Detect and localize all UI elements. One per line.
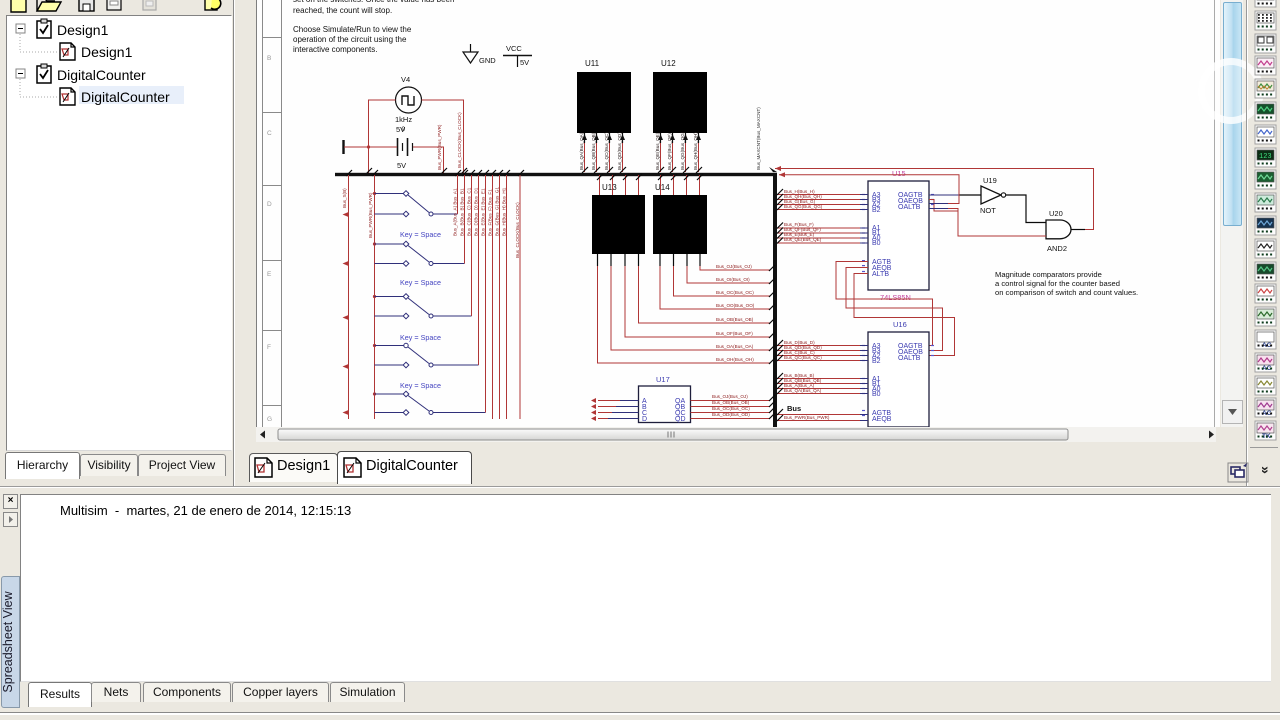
svg-text:Bus_PWR(Bus_PWR): Bus_PWR(Bus_PWR) [368,192,373,238]
switch J1 [375,191,458,217]
svg-text:Key = Space: Key = Space [400,381,441,390]
clock source V4 [395,75,422,134]
svg-text:U15: U15 [892,169,906,178]
switch J5 [375,381,486,415]
svg-text:U19: U19 [983,176,997,185]
svg-text:Bus_QG(Bus_QG): Bus_QG(Bus_QG) [784,204,823,209]
wire V4 right to bus (Bus_CLOCK) [422,100,468,174]
IC U12 [653,59,707,133]
svg-text:Key = Space: Key = Space [400,230,441,239]
wire battery to ground [344,146,397,148]
expand box row1 [16,24,25,33]
inverter U19 [980,176,1006,215]
svg-text:Bus_OB(Bus_OB): Bus_OB(Bus_OB) [716,317,754,322]
svg-text:Bus_OB(Bus_OB): Bus_OB(Bus_OB) [712,400,750,405]
doc icon design1 tab [255,458,272,477]
ground bar left of battery [342,140,344,154]
svg-text:Bus_OC(Bus_OC): Bus_OC(Bus_OC) [716,290,754,295]
U15 input wires from bus [777,189,868,210]
svg-text:U14: U14 [655,183,670,192]
svg-text:U11: U11 [585,59,600,68]
wire AND output feedback to bus [775,166,1094,230]
svg-text:B2: B2 [872,207,881,214]
svg-text:NOT: NOT [980,206,996,215]
svg-text:reached, the count will stop.: reached, the count will stop. [293,6,392,15]
svg-text:Bus_OH(Bus_OH): Bus_OH(Bus_OH) [716,357,754,362]
svg-text:0: 0 [402,126,406,133]
doc icon digitalcounter tab [344,458,361,477]
U16 input wires from bus group1 [777,340,868,361]
sheet border right [1214,0,1216,427]
svg-text:Bus_D(Bus_D) Bus_D1: Bus_D(Bus_D) Bus_D1 [474,187,479,236]
clipboard check icon row1 [37,19,51,38]
svg-text:Bus_OD(Bus_OD): Bus_OD(Bus_OD) [712,412,750,417]
canvas h scrollbar [256,427,1216,442]
svg-text:Bus_G(Bus_G) Bus_G1: Bus_G(Bus_G) Bus_G1 [495,187,500,236]
svg-text:ALTB: ALTB [872,271,889,278]
svg-text:Key = Space: Key = Space [400,278,441,287]
left bottom tabs [0,450,234,486]
svg-text:OALTB: OALTB [898,204,921,211]
net label right of U12 [756,107,777,172]
comparator U16 [862,320,934,427]
splitter [233,0,234,486]
vertical Spreadsheet View tab [1,576,20,708]
svg-text:5V: 5V [397,161,406,170]
svg-text:Bus_CLOCK(Bus_CLOCK): Bus_CLOCK(Bus_CLOCK) [515,202,520,258]
annotation magnitude comparators [995,270,1138,297]
doc icon row2 [60,43,75,60]
svg-text:Bus_F(Bus_F) Bus_F1: Bus_F(Bus_F) Bus_F1 [488,189,493,236]
U17 output wires to bus [691,394,776,419]
DigitalCounter tab (active) [337,451,472,484]
svg-text:set on the switches. Once the: set on the switches. Once the value has … [293,0,454,4]
svg-text:D: D [642,416,647,423]
svg-text:V4: V4 [401,75,410,84]
U12 pins to bus [655,131,702,173]
white content [20,494,1271,682]
svg-text:Bus_A(Bus_A) Bus_A1: Bus_A(Bus_A) Bus_A1 [453,188,458,236]
comparator U15 [862,169,934,302]
yellow tool icon (cropped) [205,0,217,10]
U16 input wires group2 [777,373,868,394]
svg-text:Bus_S(B): Bus_S(B) [342,188,347,208]
svg-text:Bus_C(Bus_C) Bus_C1: Bus_C(Bus_C) Bus_C1 [467,187,472,236]
switch rail wire left [342,170,352,419]
bottom tabs [28,682,92,707]
svg-text:B0: B0 [872,240,881,247]
selection highlight row4 [79,86,184,104]
wire V4 left to bus [366,100,396,174]
doc icon row4 [60,88,75,105]
switch output vertical wires to bus [453,170,490,413]
AND gate U20 [1046,209,1071,253]
svg-text:U16: U16 [893,320,907,329]
svg-text:Magnitude comparators provide: Magnitude comparators provide [995,270,1102,279]
svg-text:Bus_OJ(Bus_OJ): Bus_OJ(Bus_OJ) [716,264,752,269]
svg-text:Bus_PWR(Bus_PWR): Bus_PWR(Bus_PWR) [784,415,830,420]
svg-text:123: 123 [1259,153,1272,161]
right toolbar separator [1246,0,1247,486]
U11 pins to bus [579,132,626,173]
svg-text:Bus_CLOCK(Bus_CLOCK): Bus_CLOCK(Bus_CLOCK) [457,112,462,168]
svg-text:interactive components.: interactive components. [293,45,378,54]
U17 input wires [591,398,639,421]
svg-text:GND: GND [479,56,496,65]
cascade loops U15/U16 [836,262,955,356]
watermark circle [1198,58,1264,124]
IC U14 [653,183,707,254]
tree box [6,15,232,451]
svg-text:74LS85N: 74LS85N [880,293,911,302]
switch J4 [375,333,479,368]
svg-text:Bus_QE(Bus_QE): Bus_QE(Bus_QE) [784,237,822,242]
arrow button [3,512,18,527]
expand box row3 [16,69,25,78]
svg-text:B0: B0 [872,391,881,398]
switch J2 [375,230,465,266]
svg-text:5V: 5V [520,58,529,67]
switch J3 [375,278,472,319]
bus horizontal thick [335,173,777,176]
svg-text:Bus: Bus [787,404,801,413]
bus vertical thick [773,173,777,427]
svg-text:B: B [267,55,271,62]
svg-text:U17: U17 [656,375,670,384]
svg-text:AEQB: AEQB [872,416,892,423]
wire NOT output to AND input [1006,195,1046,223]
svg-text:operation of the circuit using: operation of the circuit using the [293,35,407,44]
svg-text:Bus_OC(Bus_OC): Bus_OC(Bus_OC) [712,406,750,411]
svg-text:G: G [267,416,272,423]
tree dotted connector lines [20,34,58,97]
battery V? [397,138,413,170]
save icon (cropped) [79,0,94,11]
ground GND symbol [463,44,496,65]
staircase wires U13/U14 bottoms to vertical bus [598,254,776,364]
new doc icon (cropped) [11,0,26,12]
IC U11 [577,59,631,133]
sheet border left [262,0,282,427]
disabled icon (cropped) [143,0,156,10]
left toolbar cropped icons [0,0,234,15]
svg-text:Bus_OI(Bus_OI): Bus_OI(Bus_OI) [716,277,750,282]
svg-text:Bus_OA(Bus_OA): Bus_OA(Bus_OA) [716,344,754,349]
close button [3,494,18,509]
canvas v scrollbar [1221,0,1243,427]
svg-text:Choose Simulate/Run to view th: Choose Simulate/Run to view the [293,25,412,34]
svg-text:QD: QD [675,416,686,423]
cascade icon right [1226,460,1280,490]
instruments toolbar [1248,0,1280,486]
VCC power symbol [503,44,532,67]
svg-text:AND2: AND2 [1047,244,1067,253]
svg-text:D: D [267,201,272,208]
U16 cascade input wires [777,409,868,421]
svg-text:Bus_OJ(Bus_OJ): Bus_OJ(Bus_OJ) [712,394,748,399]
wire OALTB to AND input [929,209,1046,237]
svg-text:U20: U20 [1049,209,1063,218]
svg-text:E: E [267,271,272,278]
U13 pins to bus above [597,174,642,195]
svg-text:Bus_QC(Bus_QC): Bus_QC(Bus_QC) [784,355,822,360]
svg-text:a control signal for the count: a control signal for the counter based [995,279,1120,288]
svg-text:VCC: VCC [506,44,522,53]
print icon (cropped) [107,0,121,10]
svg-text:C: C [267,130,272,137]
wire battery right to bus (Bus_PWR) [413,124,447,174]
wire bus to U19 input [779,172,959,203]
svg-text:Bus_E(Bus_E) Bus_E1: Bus_E(Bus_E) Bus_E1 [481,188,486,236]
Design1 tab [249,453,338,482]
bottom edge [0,712,1280,713]
switch rail wire 2 [368,170,378,419]
svg-text:B2: B2 [872,358,881,365]
svg-text:U13: U13 [602,183,617,192]
svg-text:U12: U12 [661,59,676,68]
svg-text:1kHz: 1kHz [395,115,412,124]
annotation text top [293,0,454,54]
open folder icon (cropped) [37,2,61,11]
IC U13 [592,183,645,254]
long vertical bus wires below bus [488,170,525,419]
svg-text:Key = Space: Key = Space [400,333,441,342]
svg-text:Bus_PWR(Bus_PWR): Bus_PWR(Bus_PWR) [437,124,442,170]
IC U17 decoder [639,375,691,423]
svg-text:Bus_B(Bus_B) Bus_B1: Bus_B(Bus_B) Bus_B1 [460,188,465,236]
svg-text:OALTB: OALTB [898,355,921,362]
svg-text:Bus_QA(Bus_QA): Bus_QA(Bus_QA) [784,388,822,393]
svg-text:Bus_H(Bus_H) Bus_H1: Bus_H(Bus_H) Bus_H1 [502,187,507,236]
wire OAGTB to NOT input [929,195,981,211]
svg-text:on comparison of switch and co: on comparison of switch and count values… [995,288,1138,297]
svg-text:F: F [267,344,271,351]
svg-text:Bus_OO(Bus_OO): Bus_OO(Bus_OO) [716,303,755,308]
clipboard check icon row3 [37,64,51,83]
svg-text:Bus_OF(Bus_OF): Bus_OF(Bus_OF) [716,331,753,336]
svg-text:Bus_MAXCNT(Bus_MAXCNT): Bus_MAXCNT(Bus_MAXCNT) [756,107,761,170]
U14 pins to bus above [658,174,703,195]
U15 input wires group2 [777,222,868,244]
